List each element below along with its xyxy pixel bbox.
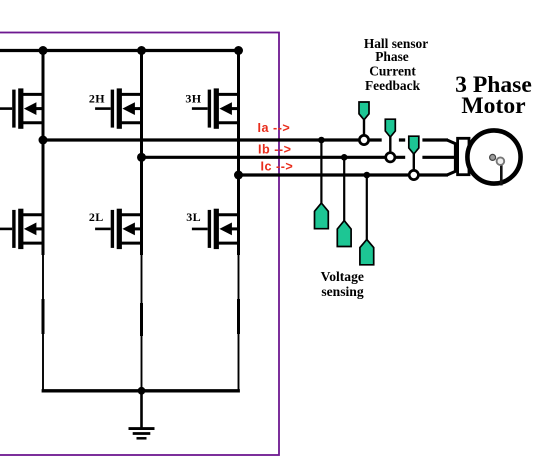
voltage sensor probe phase C	[360, 239, 374, 264]
junction voltage tap phase A	[318, 137, 325, 144]
transistor Q2H (2H)	[95, 88, 143, 128]
motor terminal box	[458, 138, 469, 174]
wire half-bridge column phase C	[237, 51, 240, 391]
svg-text:Feedback: Feedback	[365, 78, 421, 93]
hall current sensor probe phase A	[355, 100, 372, 136]
voltage sensor probe phase B	[337, 221, 351, 247]
svg-text:2L: 2L	[89, 210, 104, 224]
transistor Q2L (2L)	[95, 209, 143, 249]
wire phase A (Ia) to motor	[43, 138, 448, 141]
junction voltage tap phase B	[341, 154, 348, 161]
transistor Q1H (1H)	[0, 88, 44, 128]
junction voltage tap phase C	[364, 172, 371, 179]
svg-text:Ia -->: Ia -->	[258, 121, 291, 135]
motor M body	[467, 130, 520, 183]
motor shaft hub circle 1	[490, 154, 496, 160]
transistor Q3H (3H)	[192, 88, 240, 128]
svg-text:2H: 2H	[89, 92, 105, 106]
wire DC+ top rail	[0, 49, 240, 52]
hall current sensor probe phase C	[405, 134, 422, 171]
current sensor ring phase B	[386, 153, 395, 162]
wire voltage tap stem phase A	[320, 140, 322, 204]
junction top rail / 3H drain	[234, 46, 243, 55]
wire half-bridge column phase A	[42, 51, 45, 391]
wire phase B (Ib) to motor	[142, 156, 456, 159]
svg-text:Ib -->: Ib -->	[258, 142, 291, 156]
junction top rail / 1H drain	[39, 46, 48, 55]
svg-text:Phase: Phase	[375, 49, 409, 64]
motor terminal funnel	[447, 140, 456, 175]
current sensor ring phase C	[409, 170, 418, 179]
wire voltage tap stem phase B	[343, 157, 345, 221]
inverter enclosure box	[0, 33, 279, 456]
junction top rail / 2H drain	[137, 46, 146, 55]
svg-text:Ic -->: Ic -->	[261, 159, 294, 173]
voltage sensor probe phase A	[315, 203, 329, 229]
wire half-bridge column phase B	[140, 51, 143, 391]
svg-text:Motor: Motor	[461, 93, 525, 119]
wire ground rail	[42, 389, 240, 392]
transistor Q1L (1L)	[0, 209, 44, 249]
junction phase B midpoint	[137, 153, 146, 162]
motor shaft line	[500, 164, 503, 186]
wire phase C (Ic) to motor	[239, 173, 449, 176]
svg-text:3L: 3L	[186, 210, 201, 224]
junction phase A midpoint	[39, 136, 48, 145]
junction phase C midpoint	[234, 171, 243, 180]
ground symbol	[129, 391, 155, 439]
svg-text:Current: Current	[369, 64, 416, 79]
transistor Q3L (3L)	[192, 209, 240, 249]
svg-text:3H: 3H	[185, 92, 201, 106]
wire voltage tap stem phase C	[366, 175, 368, 240]
svg-text:sensing: sensing	[321, 284, 364, 299]
svg-text:Voltage: Voltage	[321, 269, 364, 284]
hall current sensor probe phase B	[382, 117, 399, 153]
motor shaft hub circle 2	[497, 157, 505, 165]
junction ground rail	[138, 387, 146, 395]
current sensor ring phase A	[359, 135, 368, 144]
